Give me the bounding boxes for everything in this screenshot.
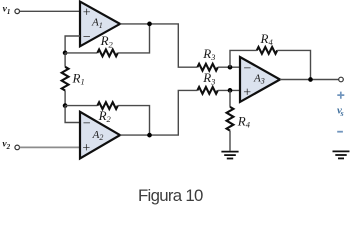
op-amp A3	[240, 57, 280, 102]
ground (below R4)	[221, 152, 238, 159]
wire R2a right lead up to output	[118, 24, 150, 53]
node A2 output	[147, 133, 152, 138]
node A1 feedback junction	[63, 51, 68, 56]
op-amp A1	[80, 2, 120, 47]
wire A1 inverting input	[65, 36, 80, 53]
resistor R3 (bottom)	[197, 87, 217, 94]
output terminal	[339, 77, 344, 82]
svg-text:−: −	[244, 61, 252, 76]
svg-text:+: +	[83, 6, 91, 21]
op-amp A2	[80, 112, 120, 159]
wire R4 feedback right lead down to output	[277, 50, 310, 79]
wire R2b right lead down to A2 output	[118, 106, 150, 136]
node R1 bottom junction	[63, 103, 68, 108]
wire A3 output	[280, 79, 339, 81]
resistor R3 (top)	[197, 64, 217, 71]
wire R2a left lead	[65, 52, 97, 54]
node A3 non-inverting input	[228, 88, 233, 93]
wire R3 top right lead	[218, 66, 240, 68]
svg-text:+: +	[243, 86, 251, 101]
wire A2 output	[120, 90, 197, 135]
caption Figura 10	[138, 186, 258, 206]
input terminal v2	[15, 145, 20, 150]
resistor R4 (to ground)	[227, 107, 234, 131]
node A3 output	[308, 77, 313, 82]
node A3 inverting input	[228, 65, 233, 70]
resistor R1	[64, 53, 66, 106]
label + (output polarity)	[337, 92, 344, 99]
resistor R2 (feedback of op-amp A2)	[97, 102, 117, 109]
node A1 output	[147, 22, 152, 27]
svg-text:+: +	[82, 141, 90, 156]
wire v2 to A2 + input	[20, 146, 80, 148]
wire R4 ground leg top lead	[229, 90, 231, 107]
resistor R2 (feedback of op-amp A1)	[97, 50, 117, 57]
resistor R4 (feedback)	[257, 47, 277, 54]
input terminal v1	[15, 9, 20, 14]
ground (output reference)	[333, 151, 350, 158]
wire R4 to ground	[229, 131, 231, 151]
wire R4 feedback left lead	[230, 50, 257, 67]
wire v1 to A1 + input	[20, 10, 80, 12]
svg-text:−: −	[83, 30, 91, 45]
wire R2b left lead	[65, 105, 97, 107]
label - (output polarity)	[337, 131, 343, 133]
wire A2 inverting input	[65, 106, 80, 123]
wire R3 bottom right lead	[218, 89, 240, 91]
wire A1 output	[120, 24, 197, 67]
svg-text:−: −	[83, 116, 91, 131]
